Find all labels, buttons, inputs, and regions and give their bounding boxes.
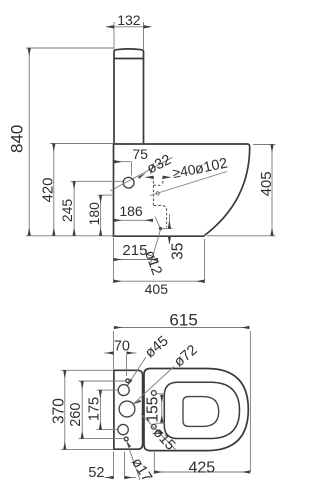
label diam 32 with leader	[110, 152, 174, 191]
dim 52 (plan bottom left)	[88, 452, 136, 481]
dim >=40 (channel)	[146, 161, 198, 181]
dim 180 (left)	[86, 195, 114, 236]
label diam 102 with leader and inlet mark	[150, 155, 229, 195]
svg-text:155: 155	[144, 397, 161, 423]
svg-text:52: 52	[88, 465, 104, 481]
side view: hidden water channel (dashed)	[153, 177, 166, 228]
svg-text:35: 35	[170, 243, 187, 260]
svg-text:840: 840	[7, 125, 26, 153]
dim 840 (total height, left)	[7, 48, 114, 236]
side view: flush/supply hole circle	[123, 177, 134, 188]
plan view: tank rectangle	[114, 370, 143, 449]
dim 370 (plan left)	[50, 370, 113, 449]
dim 215	[114, 238, 159, 283]
svg-text:425: 425	[188, 460, 215, 477]
plan view: seat rim oval	[164, 382, 239, 438]
plan view: tank holes	[118, 379, 135, 441]
dim 260 (plan)	[68, 381, 125, 439]
dim 175 (plan)	[87, 390, 118, 430]
svg-text:ø32: ø32	[144, 152, 174, 178]
dim 155 (seat holes)	[144, 394, 164, 423]
plan view: seat fixing holes	[151, 391, 156, 430]
dim 405 (bottom of side view)	[114, 239, 205, 297]
svg-text:180: 180	[86, 202, 102, 226]
svg-text:215: 215	[122, 242, 147, 259]
svg-text:245: 245	[59, 199, 75, 223]
svg-text:ø102: ø102	[193, 155, 229, 178]
side view: toilet outline	[114, 49, 250, 236]
dim 405 (right height)	[207, 145, 276, 236]
dim 615 (plan top)	[114, 310, 251, 472]
dim 420 (left)	[39, 144, 113, 236]
svg-text:405: 405	[258, 171, 275, 196]
dim 75 (tank wall to button)	[114, 146, 148, 176]
svg-text:70: 70	[114, 338, 130, 354]
dim 245 (left)	[59, 181, 123, 236]
dim 425 (plan bottom)	[154, 452, 250, 477]
plan view: inner bowl opening	[183, 397, 219, 427]
side view: outlet point and leader	[155, 217, 162, 231]
label diam 45 with leader (plan)	[127, 333, 172, 386]
svg-text:ø45: ø45	[142, 333, 171, 361]
svg-text:175: 175	[87, 397, 103, 421]
svg-text:615: 615	[169, 310, 197, 329]
label diam 17 with leader (plan)	[126, 441, 154, 485]
dim 186	[114, 203, 154, 220]
label diam 15 with leader (plan)	[141, 414, 178, 454]
svg-text:ø17: ø17	[128, 455, 155, 485]
svg-text:370: 370	[50, 398, 67, 424]
dim 70 (plan)	[105, 338, 137, 376]
svg-text:132: 132	[117, 12, 141, 28]
svg-text:260: 260	[68, 403, 84, 427]
label diam 12 with leader	[141, 230, 165, 278]
svg-text:75: 75	[132, 146, 148, 162]
plan view: bowl outline	[144, 369, 248, 451]
svg-text:405: 405	[145, 281, 169, 297]
dim 35 (outlet height)	[162, 214, 187, 260]
svg-text:ø72: ø72	[171, 342, 200, 370]
dim 132 (tank width, top)	[107, 12, 152, 50]
label diam 72 with leader (plan)	[133, 342, 201, 404]
svg-text:186: 186	[119, 203, 143, 219]
svg-text:420: 420	[39, 177, 56, 202]
